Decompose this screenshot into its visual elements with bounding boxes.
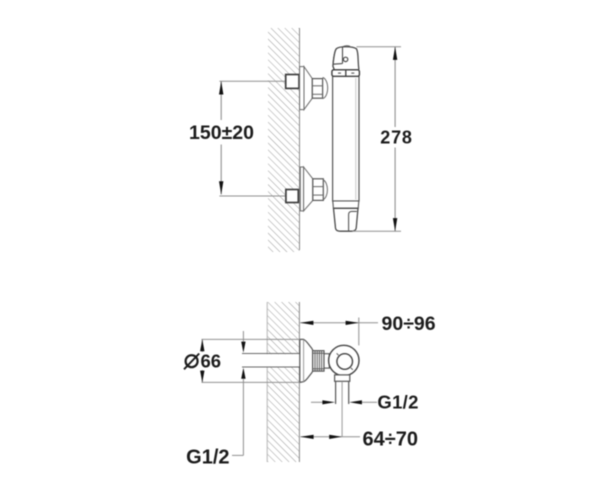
svg-text:278: 278 bbox=[380, 128, 412, 148]
svg-text:150±20: 150±20 bbox=[189, 122, 254, 144]
svg-text:64÷70: 64÷70 bbox=[363, 429, 418, 451]
svg-text:66: 66 bbox=[201, 351, 222, 372]
svg-text:G1/2: G1/2 bbox=[377, 392, 418, 413]
svg-text:G1/2: G1/2 bbox=[186, 447, 229, 469]
svg-text:90÷96: 90÷96 bbox=[382, 313, 436, 335]
